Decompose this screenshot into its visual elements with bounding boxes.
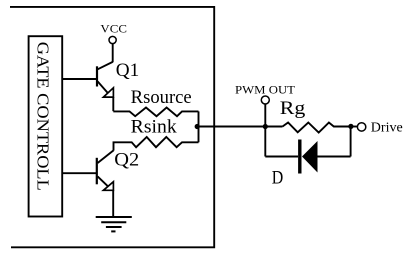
svg-text:VCC: VCC xyxy=(100,22,127,36)
node dot PWM junction xyxy=(263,124,268,129)
resistor Rsource xyxy=(113,108,198,117)
node dot at resistor junction xyxy=(195,124,200,129)
svg-text:Rg: Rg xyxy=(280,99,306,119)
wire diode branch bottom left xyxy=(265,156,298,158)
Drive terminal circle xyxy=(357,123,365,131)
svg-text:Rsource: Rsource xyxy=(131,88,192,108)
resistor Rg xyxy=(283,123,352,133)
wire Q1 emitter down xyxy=(112,97,114,111)
svg-text:PWM OUT: PWM OUT xyxy=(235,83,296,97)
diode D cathode bar xyxy=(298,140,301,174)
svg-text:Q2: Q2 xyxy=(114,151,139,171)
wire Q1 base xyxy=(62,78,97,80)
wire Rg to Drive node xyxy=(345,126,357,128)
svg-text:Drive: Drive xyxy=(371,121,403,136)
gate control block box xyxy=(29,36,63,216)
svg-text:D: D xyxy=(272,169,284,189)
wire diode branch bottom right xyxy=(318,156,351,158)
VCC terminal circle xyxy=(109,36,116,43)
wire Q1 collector to VCC xyxy=(112,44,114,63)
svg-text:GATE CONTROLL: GATE CONTROLL xyxy=(34,42,53,191)
transistor Q1 xyxy=(97,62,113,97)
wire Q2 base xyxy=(62,172,97,174)
wire PWM terminal to node xyxy=(264,104,266,126)
transistor Q2 xyxy=(97,150,114,190)
resistor Rsink xyxy=(114,137,199,151)
node dot Drive junction xyxy=(348,124,353,129)
wire main output (junction to Rg and PWM node) xyxy=(199,126,283,128)
node junction vertical wire xyxy=(198,111,200,142)
PWM OUT terminal circle xyxy=(261,96,269,104)
wire Q2 emitter to ground xyxy=(112,190,114,217)
svg-text:Rsink: Rsink xyxy=(131,118,178,138)
svg-text:Q1: Q1 xyxy=(116,61,140,81)
wire diode branch right vertical xyxy=(350,126,352,156)
driver IC outer box (open on left) xyxy=(10,7,214,247)
wire diode branch left vertical xyxy=(264,126,266,156)
ground xyxy=(96,217,132,231)
diode D triangle xyxy=(302,141,318,173)
